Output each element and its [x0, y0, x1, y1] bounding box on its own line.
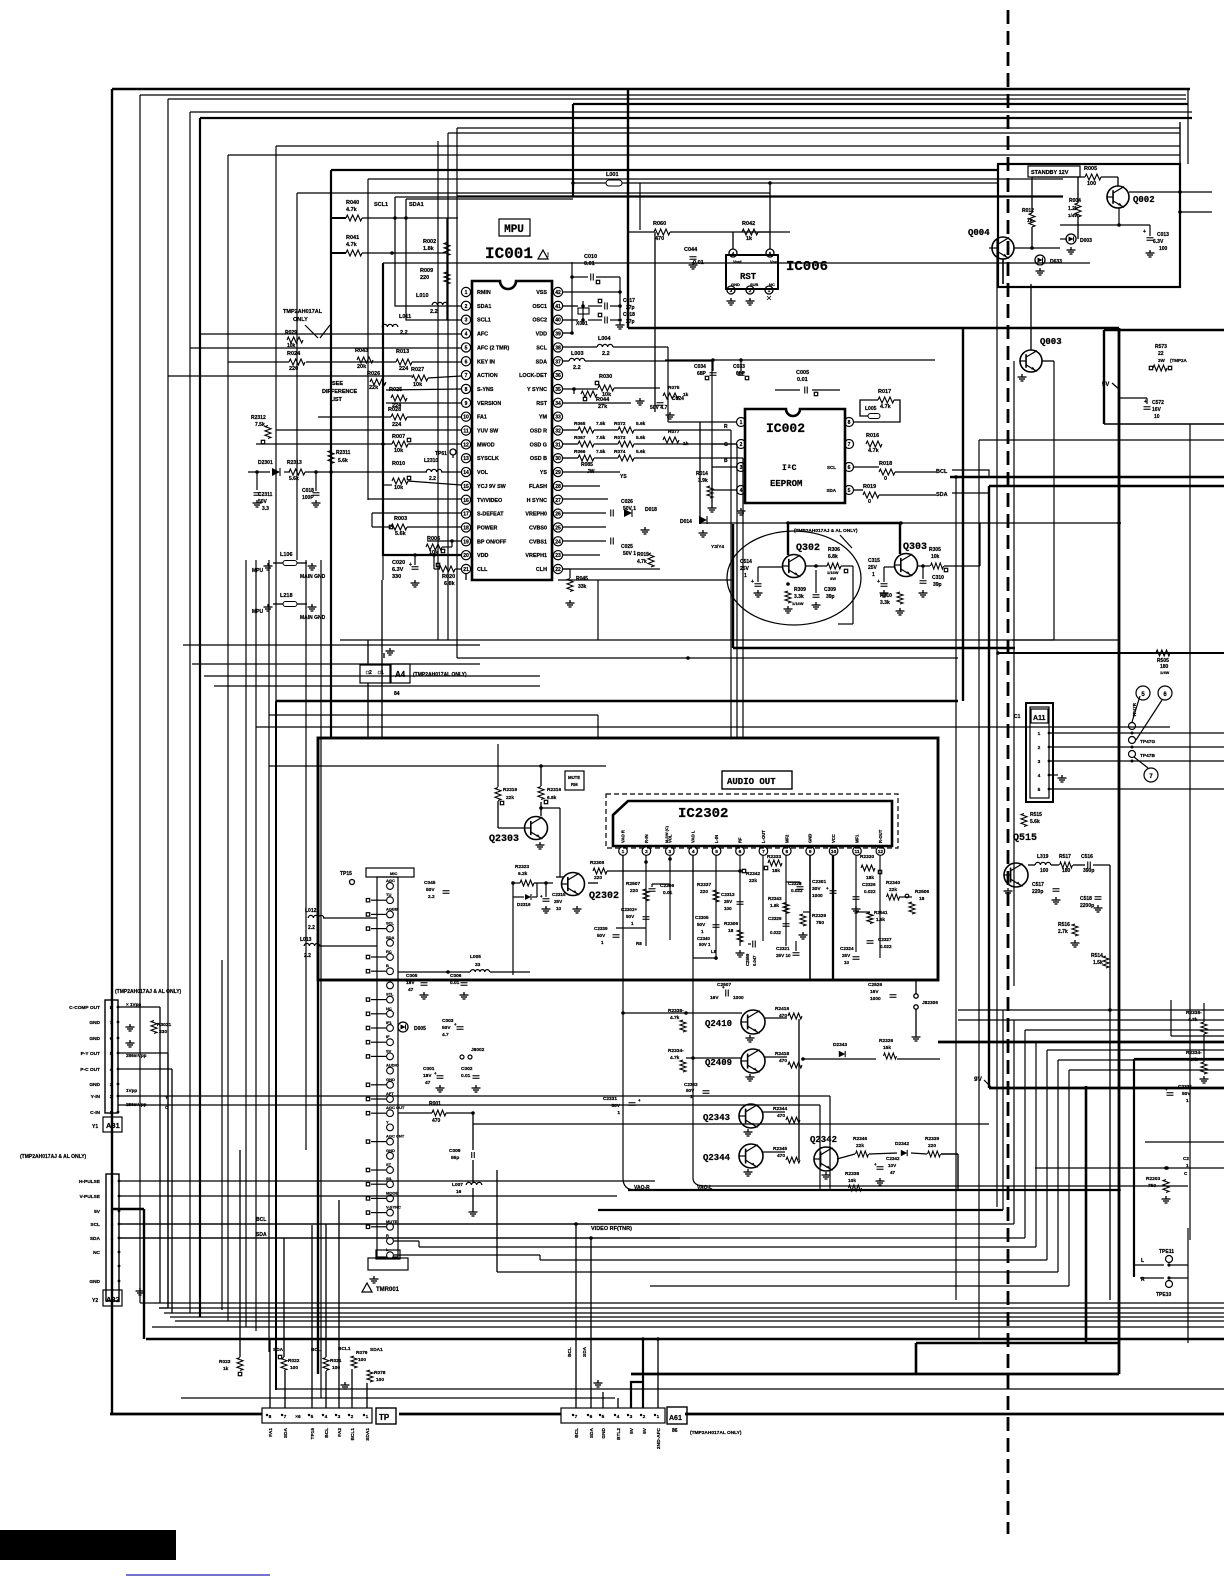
svg-text:750: 750	[1148, 1183, 1156, 1189]
svg-text:180: 180	[1062, 868, 1071, 874]
svg-text:5: 5	[602, 1414, 605, 1420]
svg-text:224: 224	[392, 422, 402, 428]
svg-text:100: 100	[1087, 181, 1096, 187]
svg-text:7.5k: 7.5k	[596, 449, 606, 455]
svg-text:1: 1	[622, 849, 625, 855]
svg-text:6.2k: 6.2k	[518, 871, 528, 877]
svg-text:4.7: 4.7	[442, 1032, 449, 1038]
svg-text:7: 7	[284, 1414, 287, 1420]
svg-text:SCL: SCL	[386, 921, 395, 926]
svg-text:R2334-: R2334-	[668, 1048, 684, 1054]
svg-text:25V: 25V	[554, 899, 563, 904]
svg-text:0.022: 0.022	[880, 944, 892, 949]
svg-text:L319: L319	[1037, 854, 1049, 860]
svg-text:5: 5	[1038, 787, 1041, 793]
svg-text:10: 10	[831, 849, 837, 855]
svg-text:R072: R072	[614, 421, 626, 427]
svg-text:TP47B: TP47B	[1140, 753, 1155, 759]
svg-text:YUV SW: YUV SW	[477, 429, 499, 435]
svg-text:R024: R024	[287, 351, 301, 357]
svg-text:0.022: 0.022	[770, 930, 782, 935]
svg-text:× 1Vpp: × 1Vpp	[126, 1002, 141, 1007]
svg-text:RF: RF	[738, 837, 743, 843]
svg-text:2.2: 2.2	[304, 953, 311, 959]
svg-text:C009: C009	[449, 1148, 461, 1154]
svg-text:16V: 16V	[870, 989, 879, 995]
svg-text:YM: YM	[539, 415, 548, 421]
svg-text:100: 100	[1159, 246, 1168, 252]
svg-text:YCJ 9V SW: YCJ 9V SW	[477, 484, 507, 490]
svg-text:1: 1	[1038, 731, 1041, 737]
svg-text:V-SYNC: V-SYNC	[386, 1205, 401, 1210]
svg-text:VAO R: VAO R	[621, 830, 626, 843]
svg-text:50V: 50V	[1182, 1091, 1191, 1097]
svg-text:2ND-AFC: 2ND-AFC	[656, 1427, 662, 1449]
svg-text:22: 22	[1158, 351, 1164, 357]
svg-text:50V: 50V	[258, 499, 268, 505]
svg-text:SDA1: SDA1	[365, 1428, 371, 1441]
svg-text:L8: L8	[711, 949, 717, 954]
svg-text:4.7k: 4.7k	[670, 1015, 680, 1021]
svg-text:R306: R306	[828, 547, 840, 553]
svg-text:5V: 5V	[94, 1209, 101, 1215]
svg-text:18: 18	[728, 928, 734, 934]
svg-text:2: 2	[740, 442, 743, 448]
svg-text:25: 25	[555, 525, 561, 531]
svg-text:L218: L218	[280, 593, 293, 599]
svg-text:R2339: R2339	[925, 1136, 939, 1142]
svg-text:Y: Y	[386, 1119, 389, 1124]
svg-text:4.7k: 4.7k	[880, 404, 892, 410]
svg-text:R027: R027	[411, 367, 424, 373]
svg-text:100: 100	[1040, 868, 1049, 874]
svg-text:RMIN: RMIN	[477, 290, 491, 296]
svg-text:50V 1: 50V 1	[623, 551, 636, 557]
svg-text:R2337: R2337	[697, 882, 711, 888]
svg-text:34: 34	[555, 401, 561, 407]
svg-text:C2340: C2340	[697, 936, 710, 941]
svg-text:A4: A4	[395, 670, 406, 679]
svg-text:R021: R021	[330, 1358, 342, 1364]
svg-text:+: +	[418, 978, 421, 983]
svg-text:P-Y OUT: P-Y OUT	[81, 1051, 100, 1057]
svg-text:3.3k: 3.3k	[794, 594, 804, 600]
svg-text:R2316: R2316	[547, 787, 561, 793]
svg-text:1/16W: 1/16W	[792, 601, 804, 606]
svg-text:Q303: Q303	[903, 542, 927, 553]
svg-text:C003: C003	[442, 1018, 454, 1024]
svg-text:R041: R041	[346, 235, 359, 241]
svg-text:C2: C2	[1183, 1156, 1189, 1161]
svg-text:S-YNS: S-YNS	[477, 387, 494, 393]
svg-text:37: 37	[555, 359, 561, 365]
svg-text:+: +	[722, 985, 725, 990]
svg-text:SCL: SCL	[536, 345, 547, 351]
svg-text:330: 330	[392, 574, 401, 580]
svg-text:(TMP2AH017AJ & AL ONLY): (TMP2AH017AJ & AL ONLY)	[115, 989, 182, 995]
svg-text:22k: 22k	[749, 878, 757, 884]
svg-text:!: !	[547, 253, 549, 259]
svg-text:J8002: J8002	[471, 1047, 485, 1053]
svg-text:C045: C045	[424, 880, 436, 886]
svg-text:4.7k: 4.7k	[637, 559, 647, 565]
svg-text:1: 1	[601, 940, 604, 945]
svg-text:R028: R028	[388, 407, 401, 413]
svg-text:VERSION: VERSION	[477, 401, 501, 407]
svg-text:MF1: MF1	[855, 834, 860, 843]
svg-text:R003: R003	[394, 516, 407, 522]
svg-text:R516: R516	[1058, 922, 1070, 928]
svg-text:R085: R085	[581, 462, 593, 468]
svg-text:C018: C018	[623, 312, 635, 318]
svg-text:25V: 25V	[724, 899, 733, 904]
svg-text:22k: 22k	[506, 795, 514, 801]
svg-text:R022: R022	[288, 1358, 300, 1364]
svg-text:30: 30	[555, 456, 561, 462]
svg-text:C025: C025	[621, 544, 633, 550]
svg-text:C2329: C2329	[768, 916, 782, 921]
svg-text:C2333: C2333	[684, 1082, 698, 1087]
svg-text:C572: C572	[1152, 400, 1164, 406]
svg-text:C034: C034	[694, 364, 706, 370]
svg-text:R-OUT: R-OUT	[878, 829, 883, 843]
svg-text:AGBB: AGBB	[386, 906, 398, 911]
svg-text:SUB: SUB	[750, 282, 759, 287]
svg-text:C-COMP OUT: C-COMP OUT	[69, 1005, 100, 1011]
svg-text:R042: R042	[742, 221, 755, 227]
svg-text:R2319: R2319	[503, 787, 517, 793]
svg-text:MPU: MPU	[252, 609, 264, 615]
svg-text:TMR001: TMR001	[376, 1287, 400, 1293]
svg-text:29: 29	[555, 470, 561, 476]
svg-text:C2305: C2305	[695, 915, 709, 920]
svg-text:11: 11	[463, 429, 469, 435]
svg-text:H-PULSE: H-PULSE	[79, 1179, 101, 1185]
svg-text:+: +	[874, 1162, 877, 1167]
svg-text:R015: R015	[637, 552, 649, 558]
svg-text:7.5k: 7.5k	[255, 422, 265, 428]
svg-text:220: 220	[928, 1143, 936, 1149]
svg-text:BCL: BCL	[324, 1428, 330, 1438]
svg-text:6.3V: 6.3V	[392, 567, 404, 573]
svg-text:4.7k: 4.7k	[1188, 1057, 1198, 1063]
svg-text:27: 27	[555, 498, 561, 504]
svg-text:C005: C005	[406, 973, 418, 979]
svg-text:10k: 10k	[413, 382, 423, 388]
svg-text:R2338-: R2338-	[668, 1008, 684, 1014]
svg-text:16V: 16V	[710, 995, 719, 1001]
svg-text:220: 220	[289, 366, 298, 372]
svg-text:SV: SV	[386, 1048, 392, 1053]
svg-text:D005: D005	[414, 1026, 426, 1032]
svg-text:32: 32	[555, 429, 561, 435]
svg-text:0.01: 0.01	[797, 377, 808, 383]
svg-text:1: 1	[1186, 1098, 1189, 1104]
svg-text:STL: STL	[386, 992, 394, 997]
svg-text:28: 28	[555, 484, 561, 490]
svg-text:R2338-: R2338-	[1186, 1010, 1202, 1016]
svg-text:0.01: 0.01	[663, 890, 673, 896]
svg-text:C020: C020	[392, 560, 405, 566]
svg-text:ONLY: ONLY	[293, 317, 308, 323]
svg-text:R2343: R2343	[768, 896, 782, 901]
svg-text:3.3: 3.3	[262, 506, 269, 512]
svg-text:A11: A11	[1033, 715, 1046, 722]
svg-text:2.7k: 2.7k	[1058, 929, 1068, 935]
svg-text:24: 24	[555, 539, 561, 545]
svg-text:1: 1	[366, 1414, 369, 1420]
svg-text:7.5k: 7.5k	[596, 421, 606, 427]
svg-text:+: +	[877, 579, 880, 585]
svg-text:C026: C026	[621, 499, 633, 505]
svg-text:R2334-: R2334-	[1186, 1050, 1202, 1056]
svg-text:TP15: TP15	[340, 871, 352, 877]
svg-text:8: 8	[848, 420, 851, 426]
svg-text:4: 4	[692, 849, 695, 855]
svg-text:1000: 1000	[733, 995, 744, 1001]
svg-text:13: 13	[463, 456, 469, 462]
svg-text:SDA: SDA	[90, 1236, 101, 1242]
svg-text:SDA: SDA	[536, 359, 547, 365]
svg-text:0: 0	[868, 499, 871, 505]
svg-text:L011: L011	[399, 314, 411, 320]
svg-text:IC2302: IC2302	[678, 806, 728, 822]
svg-text:50V 1: 50V 1	[699, 942, 711, 947]
svg-text:TMP2AH017AL: TMP2AH017AL	[283, 309, 323, 315]
svg-text:220: 220	[420, 275, 429, 281]
svg-text:1: 1	[701, 929, 704, 934]
svg-text:D003: D003	[1080, 238, 1092, 244]
svg-text:BTL2: BTL2	[616, 1428, 622, 1440]
svg-text:2.2: 2.2	[430, 309, 438, 315]
svg-text:C005: C005	[796, 370, 809, 376]
svg-text:RC: RC	[386, 949, 392, 954]
svg-text:9: 9	[465, 401, 468, 407]
svg-text:KEY IN: KEY IN	[477, 359, 495, 365]
svg-text:B: B	[724, 458, 728, 464]
svg-text:YS: YS	[540, 470, 548, 476]
svg-text:1000: 1000	[870, 996, 881, 1002]
svg-text:R2342: R2342	[746, 871, 760, 877]
svg-text:IF: IF	[386, 1034, 390, 1039]
svg-text:4: 4	[617, 1414, 620, 1420]
svg-text:2.2: 2.2	[602, 351, 610, 357]
svg-text:4: 4	[465, 332, 468, 338]
svg-text:4.7k: 4.7k	[1188, 1017, 1198, 1023]
svg-text:1/16W: 1/16W	[827, 570, 839, 575]
svg-text:1.5k: 1.5k	[876, 917, 885, 922]
svg-text:C1: C1	[1014, 714, 1021, 720]
svg-text:SEE: SEE	[332, 381, 343, 387]
svg-text:R2340: R2340	[886, 880, 900, 886]
svg-text:R2203: R2203	[1146, 1176, 1160, 1182]
svg-text:D014: D014	[680, 519, 692, 525]
svg-text:10: 10	[844, 960, 850, 965]
svg-text:23: 23	[555, 553, 561, 559]
svg-text:1.8k: 1.8k	[423, 246, 435, 252]
svg-text:16: 16	[463, 498, 469, 504]
svg-text:27p: 27p	[626, 319, 635, 325]
svg-text:□2: □2	[366, 670, 372, 676]
svg-text:3: 3	[1038, 759, 1041, 765]
svg-text:10: 10	[463, 415, 469, 421]
svg-text:15k: 15k	[883, 1045, 891, 1051]
svg-text:4.7k: 4.7k	[346, 207, 358, 213]
svg-text:NC: NC	[386, 977, 392, 982]
svg-text:33k: 33k	[578, 584, 587, 590]
svg-text:50V: 50V	[626, 914, 635, 919]
svg-text:×6: ×6	[295, 1414, 301, 1420]
svg-text:20: 20	[463, 553, 469, 559]
svg-text:P-C OUT: P-C OUT	[80, 1067, 100, 1073]
svg-text:R2338: R2338	[845, 1171, 859, 1177]
svg-text:7.5k: 7.5k	[596, 435, 606, 441]
svg-text:SCL: SCL	[90, 1222, 100, 1228]
svg-text:ACTION: ACTION	[477, 373, 498, 379]
svg-text:R2323: R2323	[515, 864, 529, 870]
svg-text:1000: 1000	[812, 893, 823, 899]
svg-text:C017: C017	[623, 298, 635, 304]
svg-text:Y SYNC: Y SYNC	[527, 387, 547, 393]
svg-text:R2308: R2308	[590, 860, 604, 866]
svg-text:SDA: SDA	[256, 1232, 267, 1238]
svg-text:R066: R066	[574, 449, 586, 455]
svg-text:0.01: 0.01	[584, 261, 595, 267]
svg-text:4.7k: 4.7k	[670, 1055, 680, 1061]
svg-text:5.6k: 5.6k	[395, 531, 407, 537]
svg-text:C2559: C2559	[745, 953, 750, 966]
svg-text:C516: C516	[1081, 854, 1093, 860]
svg-text:SDA1: SDA1	[409, 202, 424, 208]
svg-text:470: 470	[777, 1113, 785, 1119]
svg-text:MUTE: MUTE	[568, 775, 580, 780]
svg-text:R045: R045	[576, 576, 588, 582]
svg-text:TV/VIDEO: TV/VIDEO	[477, 498, 502, 504]
svg-text:50V: 50V	[597, 933, 606, 938]
svg-text:3: 3	[465, 318, 468, 324]
svg-text:40: 40	[555, 318, 561, 324]
svg-text:R013: R013	[396, 349, 409, 355]
svg-text:47: 47	[425, 1080, 431, 1086]
svg-text:R2541: R2541	[874, 910, 888, 915]
svg-text:9: 9	[809, 849, 812, 855]
svg-text:AFT: AFT	[386, 1091, 394, 1096]
svg-text:2: 2	[351, 1414, 354, 1420]
svg-text:Q2410: Q2410	[705, 1019, 732, 1029]
svg-text:1Vpp: 1Vpp	[126, 1088, 137, 1093]
svg-text:1: 1	[1186, 1163, 1189, 1168]
svg-text:MAIN GND: MAIN GND	[300, 574, 326, 580]
svg-text:AUDIO OUT: AUDIO OUT	[727, 777, 776, 787]
svg-text:+: +	[434, 1071, 437, 1076]
svg-text:R001: R001	[429, 1101, 441, 1107]
svg-text:SCL: SCL	[827, 465, 836, 470]
svg-text:Q2342: Q2342	[810, 1135, 837, 1145]
svg-text:+: +	[751, 579, 754, 585]
svg-text:35: 35	[555, 387, 561, 393]
svg-text:(TMP2AH017AJ & AL ONLY): (TMP2AH017AJ & AL ONLY)	[20, 1154, 87, 1160]
svg-text:220: 220	[630, 888, 638, 894]
svg-text:6: 6	[590, 1414, 593, 1420]
svg-text:9V: 9V	[974, 1076, 983, 1083]
svg-text:ST: ST	[386, 1162, 392, 1167]
svg-text:27p: 27p	[626, 305, 635, 311]
svg-text:MPU: MPU	[504, 224, 524, 236]
svg-text:R005: R005	[1084, 166, 1097, 172]
svg-text:R2346: R2346	[853, 1136, 867, 1142]
svg-text:(TMP2AH017AJ & AL ONLY): (TMP2AH017AJ & AL ONLY)	[794, 528, 858, 534]
svg-text:5V: 5V	[642, 1427, 648, 1434]
svg-text:B: B	[386, 963, 389, 968]
svg-text:L012: L012	[305, 908, 317, 914]
svg-text:1.8k: 1.8k	[770, 903, 779, 908]
svg-text:C518: C518	[1080, 896, 1092, 902]
svg-text:A32: A32	[106, 1295, 120, 1304]
svg-text:2200p: 2200p	[1080, 903, 1094, 909]
svg-text:CLH: CLH	[536, 567, 547, 573]
svg-text:220p: 220p	[1032, 889, 1043, 895]
svg-text:1k: 1k	[746, 236, 753, 242]
svg-text:18: 18	[919, 896, 925, 902]
svg-text:C-IN: C-IN	[90, 1110, 100, 1116]
svg-text:30V: 30V	[812, 886, 821, 892]
svg-text:R018: R018	[879, 461, 892, 467]
svg-text:50V: 50V	[442, 1025, 451, 1031]
svg-text:R2345: R2345	[773, 1146, 787, 1152]
svg-text:G: G	[724, 442, 728, 448]
svg-text:18V: 18V	[423, 1073, 432, 1079]
svg-text:AGC OUT: AGC OUT	[386, 1105, 405, 1110]
svg-text:C2327: C2327	[878, 937, 892, 942]
svg-text:22k: 22k	[369, 385, 379, 391]
svg-text:SDA1: SDA1	[370, 1347, 383, 1353]
svg-text:1.5k: 1.5k	[1093, 960, 1103, 966]
svg-text:R023: R023	[219, 1359, 231, 1365]
svg-text:L106: L106	[280, 552, 293, 558]
svg-text:7: 7	[465, 373, 468, 379]
svg-text:R309: R309	[794, 587, 806, 593]
svg-text:SDA: SDA	[283, 1427, 289, 1438]
svg-text:EEPROM: EEPROM	[770, 479, 802, 489]
svg-text:SDA1: SDA1	[477, 304, 491, 310]
svg-text:10: 10	[1154, 414, 1160, 420]
svg-text:2.2: 2.2	[308, 925, 315, 931]
svg-text:CLL: CLL	[477, 567, 488, 573]
svg-text:4: 4	[325, 1414, 328, 1420]
svg-text:VREPH0: VREPH0	[525, 512, 547, 518]
svg-text:D018: D018	[645, 507, 657, 513]
svg-text:3W: 3W	[830, 576, 836, 581]
svg-text:4.7k: 4.7k	[346, 242, 358, 248]
svg-text:IC006: IC006	[786, 259, 828, 275]
svg-text:H SYNC: H SYNC	[527, 498, 547, 504]
svg-text:LIST: LIST	[330, 397, 343, 403]
svg-text:SDA: SDA	[826, 488, 836, 493]
svg-text:L001: L001	[606, 172, 619, 178]
svg-text:L013: L013	[300, 937, 312, 943]
svg-text:C2331: C2331	[1178, 1084, 1192, 1090]
svg-text:2.2: 2.2	[429, 476, 436, 482]
svg-text:10V: 10V	[888, 1163, 897, 1168]
svg-text:10k: 10k	[931, 554, 940, 560]
svg-text:TPE10: TPE10	[1156, 1292, 1172, 1298]
svg-text:84: 84	[394, 691, 400, 697]
svg-text:47: 47	[408, 987, 414, 993]
svg-text:6.3V: 6.3V	[1153, 239, 1164, 245]
svg-text:SCL1: SCL1	[477, 318, 491, 324]
svg-text:1: 1	[617, 1110, 620, 1116]
svg-text:10: 10	[556, 906, 562, 911]
